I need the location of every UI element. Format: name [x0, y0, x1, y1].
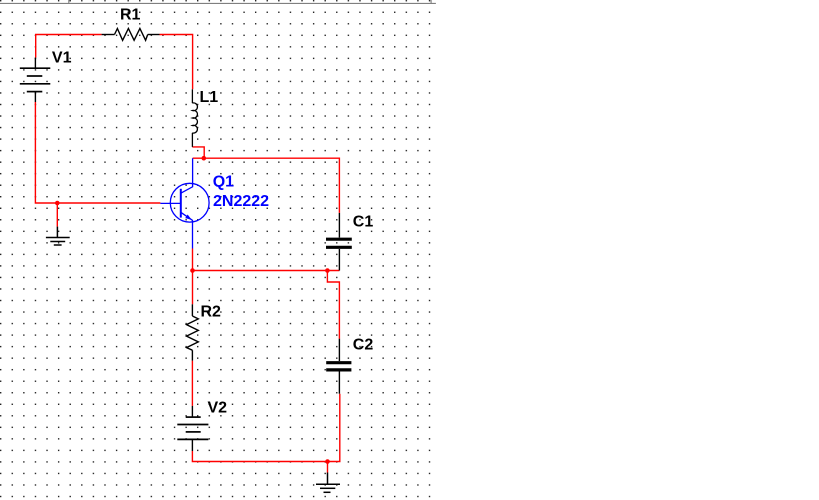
resistor R2 — [187, 304, 199, 360]
resistor R1 — [102, 29, 160, 41]
svg-text:R2: R2 — [201, 304, 222, 321]
sheet border tick right — [430, 0, 432, 4]
wire R1 right to L1 top — [160, 35, 193, 90]
junction node bottom ground — [325, 459, 330, 464]
svg-text:C2: C2 — [353, 337, 374, 354]
junction node L1-collector — [202, 156, 207, 161]
wire L1 bottom jog — [192, 147, 204, 158]
wire V1 top to R1 left — [36, 35, 102, 58]
sheet border tick left — [68, 0, 70, 4]
svg-text:V2: V2 — [208, 399, 228, 416]
transistor Q1 — [160, 158, 209, 248]
battery V2 — [177, 406, 208, 451]
inductor L1 — [192, 89, 197, 147]
capacitor C1 — [326, 213, 352, 271]
junction node emitter-R2 — [190, 268, 195, 273]
wire C1 bottom jog to C2 top — [327, 271, 339, 339]
svg-text:C1: C1 — [353, 214, 374, 231]
sheet border top line — [0, 2, 436, 4]
junction node V1-base — [55, 201, 60, 206]
grid dot area — [0, 0, 433, 500]
svg-text:L1: L1 — [200, 89, 219, 106]
wire ground stem right — [327, 462, 329, 473]
junction node C1 bottom — [325, 268, 330, 273]
svg-text:Q1: Q1 — [213, 174, 234, 191]
wire emitter to node — [192, 249, 194, 271]
wire node to R2 top — [192, 271, 194, 305]
wire V2 bottom to C2 bottom — [192, 394, 339, 462]
capacitor C2 — [326, 339, 351, 394]
wire R2 bottom to V2 top — [191, 361, 193, 406]
svg-text:R1: R1 — [120, 7, 141, 24]
wire collector node to C1 top — [193, 158, 340, 213]
battery V1 — [20, 58, 51, 102]
wire ground stem left — [56, 203, 58, 227]
wire V1 bottom to base node — [35, 102, 160, 203]
ground right — [316, 473, 340, 493]
svg-text:2N2222: 2N2222 — [213, 193, 269, 210]
wire emitter node to C1 bottom — [193, 270, 340, 272]
svg-text:V1: V1 — [52, 50, 72, 67]
ground left — [46, 227, 70, 245]
